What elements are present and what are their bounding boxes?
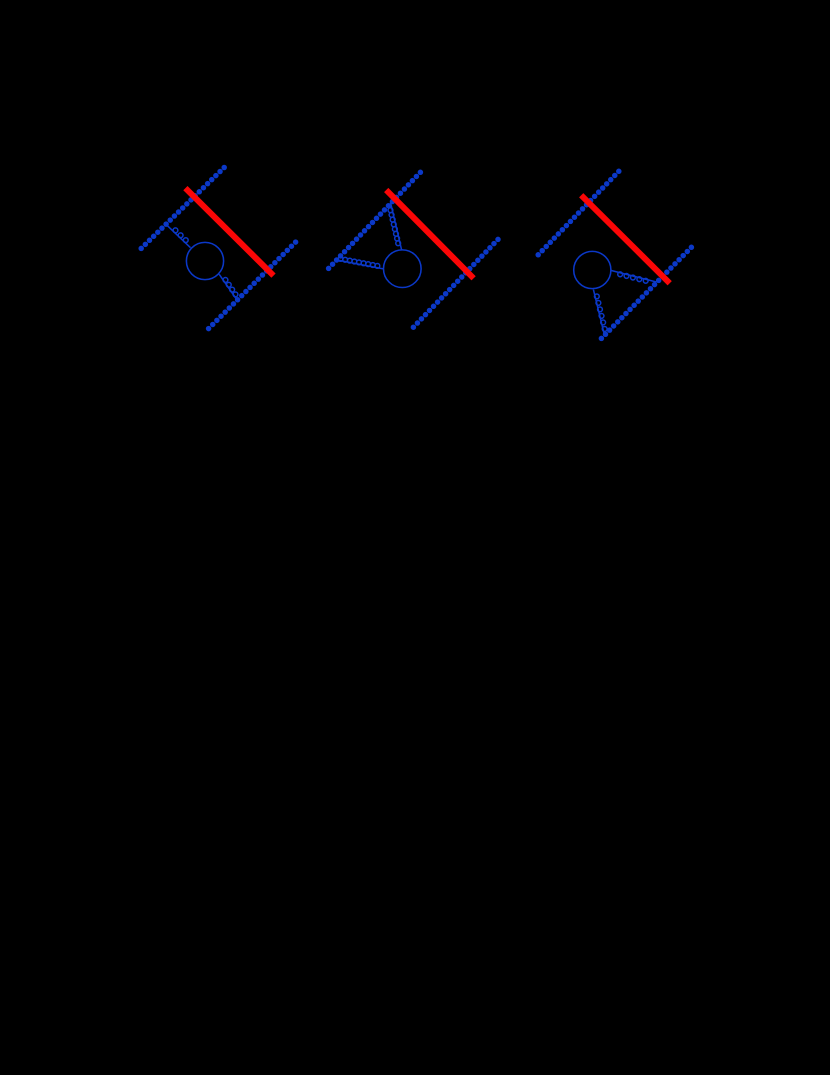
diagram 1: outgoing dotted propagator (lower-right) xyxy=(206,239,299,331)
diagram 1: quark loop circle xyxy=(186,242,223,279)
diagram 3: gluon from loop bottom to lower propagator end xyxy=(593,290,607,335)
diagram 1: gluon from loop to lower propagator xyxy=(219,274,238,298)
diagram 1: incoming dotted propagator (upper-left) xyxy=(138,165,227,251)
diagram 3: quark loop circle xyxy=(574,251,611,288)
diagram 2: dotted propagator (lower-right) xyxy=(411,237,501,330)
diagram 3: red cut line xyxy=(581,195,670,283)
diagram 2: horizontal gluon to loop left xyxy=(336,256,383,268)
diagram 2: vertical gluon to loop top xyxy=(388,203,401,250)
diagram 3: dotted propagator (lower-right) xyxy=(599,245,695,342)
diagram 3: gluon from loop right to lower propagator xyxy=(611,271,656,284)
diagram 1: red cut line xyxy=(185,188,273,276)
diagram 3: dotted propagator (upper-left) xyxy=(535,169,621,258)
diagram 1: gluon from upper propagator to loop xyxy=(167,225,191,247)
diagram 2: red cut line xyxy=(386,190,473,278)
diagram 2: quark loop circle xyxy=(384,250,422,288)
diagram 2: dotted propagator (upper-left) xyxy=(326,170,423,272)
